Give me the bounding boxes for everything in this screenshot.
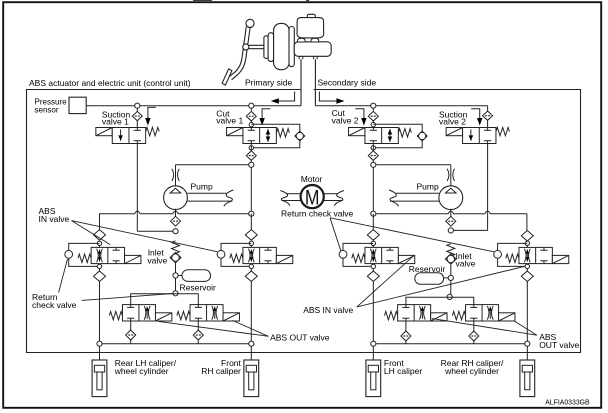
pump 1 xyxy=(164,186,188,210)
flow arrow cut valve 1 xyxy=(262,109,270,119)
wire: inlet A down xyxy=(99,281,101,343)
cut valve 2 spring xyxy=(398,129,411,137)
node: caliper 1 xyxy=(97,341,102,346)
inlet valve C closed cell xyxy=(389,247,391,250)
return check ball 1 xyxy=(170,252,181,262)
inlet valve D spring xyxy=(506,254,519,262)
inlet valve A closed cell xyxy=(115,247,117,250)
master cylinder body xyxy=(294,42,331,57)
wire: top bus primary xyxy=(86,105,301,107)
pump 1 flow band xyxy=(187,192,226,194)
flow arrow cut valve 2 xyxy=(355,109,364,119)
suction valve 2 solenoid xyxy=(446,128,462,136)
pointer: ABS OUT right to outlet 3 xyxy=(432,318,537,335)
outlet valve 4 throttle arrow xyxy=(487,306,489,320)
node: inlet C lower xyxy=(371,264,375,268)
wire: inlet D down xyxy=(526,281,528,343)
brake pedal arm xyxy=(229,27,247,78)
svg-text:Reservoir: Reservoir xyxy=(180,282,217,292)
outlet valve 1 closed cell xyxy=(130,305,132,308)
inlet valve C spring xyxy=(352,254,365,262)
cut valve 1 body xyxy=(243,128,276,144)
filter: pump 1 outlet xyxy=(171,216,181,226)
outlet valve 1 solenoid xyxy=(155,313,171,321)
suction valve 1 closed cell xyxy=(136,128,138,131)
vibration marks pump 2 xyxy=(447,169,449,181)
node: caliper 2 xyxy=(249,341,254,346)
outlet valve 1 body xyxy=(122,305,155,321)
cut valve 1 closed cell xyxy=(250,128,252,131)
node: inlet B lower xyxy=(249,264,253,268)
wire: bottom bus right xyxy=(373,343,527,345)
node: caliper 3 xyxy=(371,341,376,346)
pilot check: inlet D xyxy=(494,250,502,258)
master cylinder reservoir cap xyxy=(307,14,315,18)
svg-text:wheel cylinder: wheel cylinder xyxy=(114,366,169,376)
node: inlet A upper xyxy=(97,241,101,245)
svg-text:Motor: Motor xyxy=(301,174,323,184)
node: inlet D upper xyxy=(525,241,529,245)
outlet valve 4 spring xyxy=(452,311,465,319)
brake booster xyxy=(264,36,268,59)
wire: cut valve 1 to pump line xyxy=(176,164,249,166)
svg-text:sensor: sensor xyxy=(35,106,59,115)
wire: to reservoir node 1 xyxy=(175,263,177,273)
wire: suction valve 1 down xyxy=(136,144,138,214)
pilot check: inlet C xyxy=(339,250,347,258)
wire: inlet B down xyxy=(250,281,252,343)
outlet valve 2 solenoid xyxy=(223,313,239,321)
wire: pump 2 to filter xyxy=(450,209,452,217)
return check ball 2 xyxy=(445,254,456,264)
outlet valve 4 solenoid xyxy=(499,313,515,321)
svg-text:Pump: Pump xyxy=(191,181,213,191)
motor M1 xyxy=(301,185,324,208)
flow arrow suction valve 2 xyxy=(471,109,480,119)
svg-text:Pump: Pump xyxy=(417,181,439,191)
pointer: ABS IN right to inlet D xyxy=(357,266,525,307)
node: inlet C upper xyxy=(371,241,375,245)
inlet valve B throttle arrow xyxy=(248,249,250,263)
pilot check: inlet B xyxy=(217,250,225,258)
filter: cut valve 2 lower xyxy=(372,144,374,151)
wire: caliper 2 drop xyxy=(250,346,252,360)
master cylinder reservoir tank xyxy=(297,18,324,38)
plain check: inlet C lower xyxy=(372,269,374,271)
wire: caliper 1 drop xyxy=(99,346,101,360)
wire: pump 2 top xyxy=(450,165,452,186)
wire: top bus secondary xyxy=(315,105,487,107)
outlet valve 3 closed cell xyxy=(405,305,407,308)
pointer: return check to pilot C xyxy=(330,218,341,251)
svg-text:valve 1: valve 1 xyxy=(102,116,129,126)
cut valve 1 open cell arrow xyxy=(267,129,269,142)
outlet valve 2 body xyxy=(190,305,223,321)
wire: cut valve 1 bypass xyxy=(251,124,299,131)
check valve: cut valve 1 bypass xyxy=(295,131,305,141)
svg-text:ABS OUT valve: ABS OUT valve xyxy=(270,332,330,342)
pointer: return check to pilot A xyxy=(59,259,68,293)
suction valve 1 open cell arrow xyxy=(120,129,122,140)
cut valve 2 open cell arrow xyxy=(389,129,391,142)
pointer: ABS OUT to outlet 1 xyxy=(159,321,269,336)
pedal lower pivot xyxy=(243,44,249,50)
node: cut valve 2 below body xyxy=(371,146,375,150)
inlet valve A spring xyxy=(78,254,91,262)
svg-text:valve: valve xyxy=(456,259,476,269)
plain check: inlet A upper xyxy=(94,230,106,241)
svg-text:Primary side: Primary side xyxy=(245,77,293,87)
node: cut valve 2 out xyxy=(371,162,376,167)
motor band left xyxy=(286,193,300,195)
node: inlet B upper xyxy=(249,241,253,245)
node: cut valve 1 below body xyxy=(249,146,253,150)
svg-text:Return check valve: Return check valve xyxy=(281,208,354,218)
pump 2 xyxy=(439,186,463,210)
svg-text:M: M xyxy=(305,185,320,209)
return spring 1 xyxy=(172,241,180,253)
inlet valve C body xyxy=(372,246,374,248)
pump 2 flow band xyxy=(396,192,439,194)
cut valve 2 solenoid xyxy=(349,128,365,136)
suction valve 2 body xyxy=(463,128,496,144)
outlet valve 2 spring xyxy=(177,311,190,319)
pointer: ABS OUT to outlet 2 xyxy=(232,320,268,336)
wire: inlet B pilot loop xyxy=(221,243,251,250)
node: suction valve 1 top xyxy=(135,103,140,108)
flow arrow primary xyxy=(279,92,295,102)
inlet valve D solenoid xyxy=(552,255,568,263)
wire: cut valve 2 to pump line xyxy=(376,164,451,166)
cut valve 1 spring xyxy=(276,129,289,137)
wire: caliper 4 drop xyxy=(526,346,528,360)
node: reservoir 2 xyxy=(448,275,453,280)
flow arrow secondary xyxy=(319,92,336,102)
svg-text:check valve: check valve xyxy=(32,300,77,310)
wire: caliper 3 drop xyxy=(372,346,374,360)
outlet valve 3 spring xyxy=(384,311,397,319)
cut-off text fragments xyxy=(193,0,212,2)
wire: inlet A pilot loop xyxy=(69,243,100,250)
svg-text:RH caliper: RH caliper xyxy=(201,366,241,376)
motor band right xyxy=(324,193,338,195)
push rod xyxy=(249,44,266,46)
node: suction bus cut valve 1 xyxy=(249,211,254,216)
cut valve 2 closed cell xyxy=(372,128,374,131)
svg-text:valve: valve xyxy=(147,256,167,266)
pipe: secondary side xyxy=(314,59,316,105)
brake pedal pivot xyxy=(246,19,254,27)
pointer: ABS IN right to inlet C xyxy=(357,255,414,307)
svg-text:IN valve: IN valve xyxy=(39,214,70,224)
wire: suction bus right xyxy=(373,211,527,214)
inlet valve C solenoid xyxy=(398,255,414,263)
node: cut valve 2 top xyxy=(371,103,376,108)
inlet valve B solenoid xyxy=(276,255,292,263)
svg-text:valve 2: valve 2 xyxy=(332,116,359,126)
svg-text:valve 2: valve 2 xyxy=(439,116,466,126)
svg-text:LH caliper: LH caliper xyxy=(384,366,422,376)
inlet valve A solenoid xyxy=(125,255,141,263)
inlet valve D body xyxy=(526,246,528,248)
wheel cylinder: Rear RH xyxy=(520,360,535,397)
svg-text:Secondary side: Secondary side xyxy=(318,77,377,87)
pointer: ABS IN to inlet B xyxy=(72,221,218,252)
brake pedal pad xyxy=(222,69,232,85)
node: cut valve 1 out xyxy=(249,162,254,167)
node: pump 2 outlet xyxy=(448,228,453,233)
caliper: Front RH xyxy=(244,360,259,397)
inlet valve D throttle arrow xyxy=(524,249,526,263)
svg-text:wheel cylinder: wheel cylinder xyxy=(444,366,499,376)
inlet valve B spring xyxy=(230,254,243,262)
inlet valve A body xyxy=(99,246,101,248)
caliper: Front LH xyxy=(366,360,381,397)
wire: cut valve 2 bypass xyxy=(373,124,422,131)
filter: suction valve 1 xyxy=(136,108,138,111)
inlet valve B closed cell xyxy=(267,247,269,250)
filter: outlet valve 1 xyxy=(130,321,132,330)
ABS control unit box xyxy=(27,90,581,353)
outlet valve 4 closed cell xyxy=(473,305,475,308)
outlet valve 1 throttle arrow xyxy=(144,306,146,320)
master cylinder ports xyxy=(298,38,306,42)
svg-text:ABS actuator and electric unit: ABS actuator and electric unit (control … xyxy=(29,78,191,88)
plain check: inlet D lower xyxy=(526,269,528,271)
pipe: primary side xyxy=(300,59,302,105)
inlet valve A throttle arrow xyxy=(97,249,99,263)
inlet valve C throttle arrow xyxy=(370,249,372,263)
outlet valve 3 solenoid xyxy=(431,313,447,321)
node: outlet bus 1 xyxy=(173,291,178,296)
pilot check: inlet A xyxy=(65,250,73,258)
node: reservoir 1 xyxy=(173,273,178,278)
wire: suction valve 2 down xyxy=(487,144,489,214)
suction valve 2 spring xyxy=(496,127,510,135)
pointer: ABS IN to inlet A xyxy=(72,221,111,245)
pointer: ABS OUT right to outlet 4 xyxy=(514,321,537,335)
wire: suction valve 1 to pump inlet xyxy=(136,214,138,232)
outlet valve 2 throttle arrow xyxy=(212,306,214,320)
outlet stubs xyxy=(298,56,300,59)
filter: outlet valve 4 xyxy=(473,321,475,331)
wire: cut valve 1 down to suction bus xyxy=(250,167,252,213)
filter: outlet valve 3 xyxy=(405,321,407,331)
inlet valve B body xyxy=(250,246,252,248)
plain check: inlet D upper xyxy=(521,231,533,242)
node: outlet bus 2 xyxy=(447,294,452,299)
node: cut valve 2 above body xyxy=(371,122,375,126)
node: pump 1 outlet xyxy=(173,229,178,234)
filter: cut valve 1 lower xyxy=(250,144,252,151)
cut valve 1 solenoid xyxy=(227,128,243,136)
wire: pump 1 top xyxy=(175,165,177,186)
svg-text:ALFIA0333GB: ALFIA0333GB xyxy=(545,400,590,407)
wire: bus drop to suction valve 2 xyxy=(487,106,489,112)
wire: to reservoir node 2 xyxy=(450,264,452,275)
wire: inlet C pilot loop xyxy=(343,243,373,250)
node: inlet A lower xyxy=(97,264,101,268)
node: inlet D lower xyxy=(525,264,529,268)
svg-text:Reservoir: Reservoir xyxy=(409,264,446,274)
suction valve 1 solenoid xyxy=(96,128,112,136)
outlet valve 4 body xyxy=(466,305,499,321)
suction valve 1 spring xyxy=(146,127,160,135)
reservoir 2 xyxy=(444,277,449,279)
suction valve 2 closed cell xyxy=(487,128,489,131)
wire: inlet D pilot loop xyxy=(498,243,528,250)
wire: pump 1 to filter xyxy=(175,209,177,217)
plain check: inlet A lower xyxy=(99,269,101,271)
outlet valve 3 body xyxy=(398,305,431,321)
wire: reservoir 1 to outlet bus xyxy=(175,278,177,291)
filter: cut valve 2 upper xyxy=(372,108,374,111)
wire: reservoir 2 to outlet bus xyxy=(450,281,452,295)
pointer: return check to pilot D xyxy=(330,218,494,252)
node: suction bus cut valve 2 xyxy=(371,211,376,216)
reservoir 1 xyxy=(178,275,182,277)
wire: suction bus left xyxy=(100,211,252,230)
svg-text:ABS IN valve: ABS IN valve xyxy=(303,305,353,315)
filter: outlet valve 2 xyxy=(197,321,199,330)
filter: suction valve 2 xyxy=(483,111,493,120)
suction valve 2 open cell arrow xyxy=(470,129,472,140)
return spring 2 xyxy=(447,244,455,256)
node: caliper 4 xyxy=(525,341,530,346)
plain check: inlet B upper xyxy=(250,214,252,230)
svg-text:OUT valve: OUT valve xyxy=(539,340,579,350)
wire: outlet bus left xyxy=(131,294,199,305)
wire: suction valve 2 to pump inlet xyxy=(487,214,489,231)
suction valve 1 body xyxy=(112,128,145,144)
wire: cut valve 2 down to suction bus xyxy=(372,167,374,213)
pressure sensor xyxy=(69,97,86,113)
pointer: return check to reservoir node xyxy=(82,294,173,301)
plain check: inlet C upper xyxy=(372,214,374,230)
outlet valve 2 closed cell xyxy=(197,305,199,308)
filter: pump 2 outlet xyxy=(446,216,456,226)
node: cut valve 1 above body xyxy=(249,122,253,126)
flow arrow suction valve 1 xyxy=(148,107,156,118)
wire: bottom bus left xyxy=(100,343,252,345)
filter: cut valve 1 upper xyxy=(250,108,252,111)
wheel cylinder: Rear LH xyxy=(92,360,107,397)
outlet valve 3 throttle arrow xyxy=(419,306,421,320)
inlet valve D closed cell xyxy=(543,247,545,250)
cut valve 2 body xyxy=(365,128,398,144)
check valve: cut valve 2 bypass xyxy=(417,131,427,141)
svg-text:valve 1: valve 1 xyxy=(216,116,243,126)
node: cut valve 1 top xyxy=(249,103,254,108)
plain check: inlet B lower xyxy=(250,269,252,271)
vibration marks pump 1 xyxy=(172,169,174,181)
wire: outlet bus right xyxy=(406,297,474,304)
outlet valve 1 spring xyxy=(109,311,122,319)
wire: inlet C down xyxy=(372,281,374,343)
wire: suction bus to inlet D xyxy=(526,214,528,231)
